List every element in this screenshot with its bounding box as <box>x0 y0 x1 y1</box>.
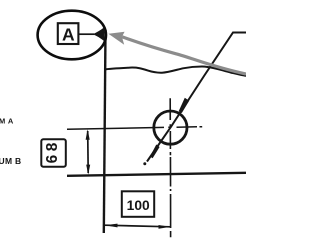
datum leader stem <box>78 33 94 35</box>
svg-text:A: A <box>62 24 75 44</box>
100 dimension line <box>105 225 171 227</box>
100 value box <box>122 191 154 217</box>
100 dim arrow right <box>159 225 171 229</box>
leader arrowhead pointing at hole center <box>179 98 190 113</box>
datum letter frame <box>58 23 79 44</box>
lower arrowhead on leader <box>150 145 160 159</box>
68 value box <box>41 139 66 167</box>
hole circle <box>154 111 187 144</box>
svg-text:UM B: UM B <box>0 156 21 166</box>
68 dimension line <box>87 131 90 173</box>
svg-text:M A: M A <box>0 116 14 125</box>
datum solid triangle (base on edge, apex at stem) <box>93 28 105 42</box>
leader end dot <box>143 162 146 165</box>
gray annotation arrow shaft <box>122 37 246 74</box>
svg-text:68: 68 <box>44 139 61 163</box>
part left edge (datum A surface) <box>104 30 106 233</box>
svg-text:100: 100 <box>127 198 150 213</box>
gray annotation arrowhead (swept) <box>108 32 124 45</box>
68 dim arrow up <box>86 129 90 139</box>
break line (wavy freehand) <box>104 67 246 76</box>
leader line from top-right through hole <box>147 33 246 162</box>
part bottom edge (datum B surface) with left extension <box>67 173 246 176</box>
datum balloon ellipse <box>38 11 106 60</box>
68 dim arrow down <box>86 165 90 175</box>
hole horizontal centerline / extension to 68 dim <box>67 127 202 130</box>
hole vertical centerline / extension to 100 dim <box>169 98 171 237</box>
100 dim arrow left <box>105 224 118 228</box>
